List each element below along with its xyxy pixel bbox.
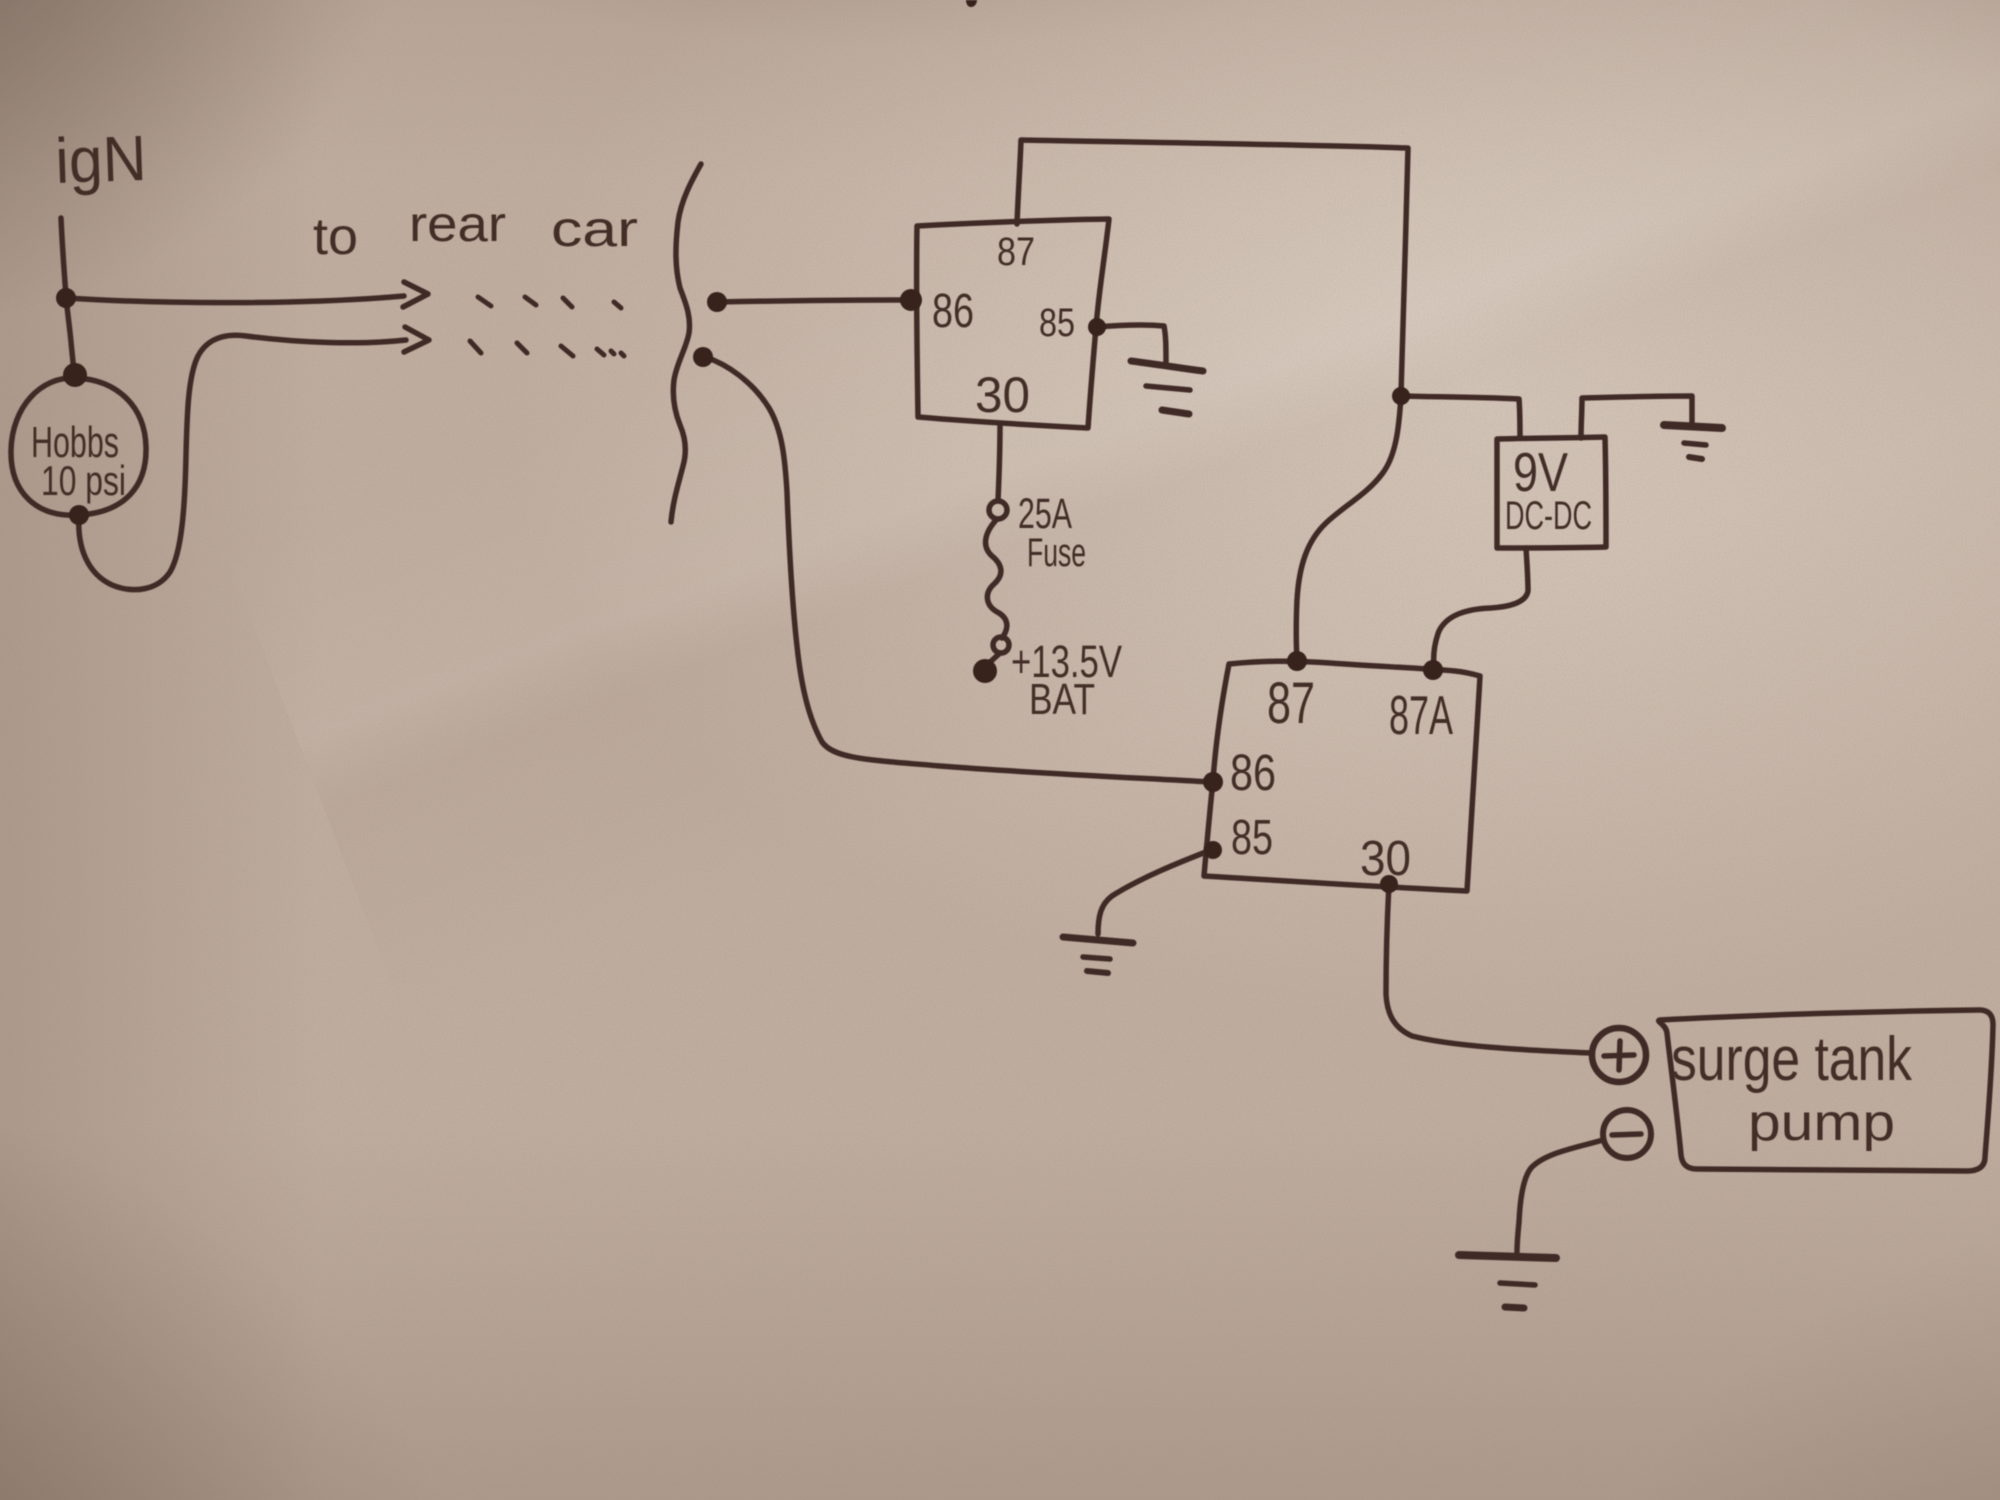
svg-text:85: 85 (1039, 301, 1075, 345)
svg-text:85: 85 (1231, 811, 1273, 865)
svg-text:86: 86 (932, 285, 974, 338)
svg-text:car: car (551, 201, 638, 257)
svg-text:87A: 87A (1389, 684, 1453, 746)
svg-text:Fuse: Fuse (1027, 531, 1086, 575)
svg-text:surge tank: surge tank (1671, 1025, 1913, 1094)
svg-text:30: 30 (1360, 832, 1411, 886)
svg-text:BAT: BAT (1029, 675, 1095, 724)
svg-text:to: to (313, 208, 358, 266)
svg-text:rear: rear (409, 196, 506, 252)
svg-text:87: 87 (997, 230, 1035, 274)
svg-text:30: 30 (975, 367, 1030, 423)
svg-text:igN: igN (54, 122, 147, 197)
svg-text:87: 87 (1267, 671, 1315, 736)
svg-text:10 psi: 10 psi (41, 457, 126, 504)
svg-text:DC-DC: DC-DC (1505, 494, 1592, 538)
svg-text:pump: pump (1748, 1094, 1895, 1152)
svg-text:86: 86 (1230, 744, 1276, 801)
